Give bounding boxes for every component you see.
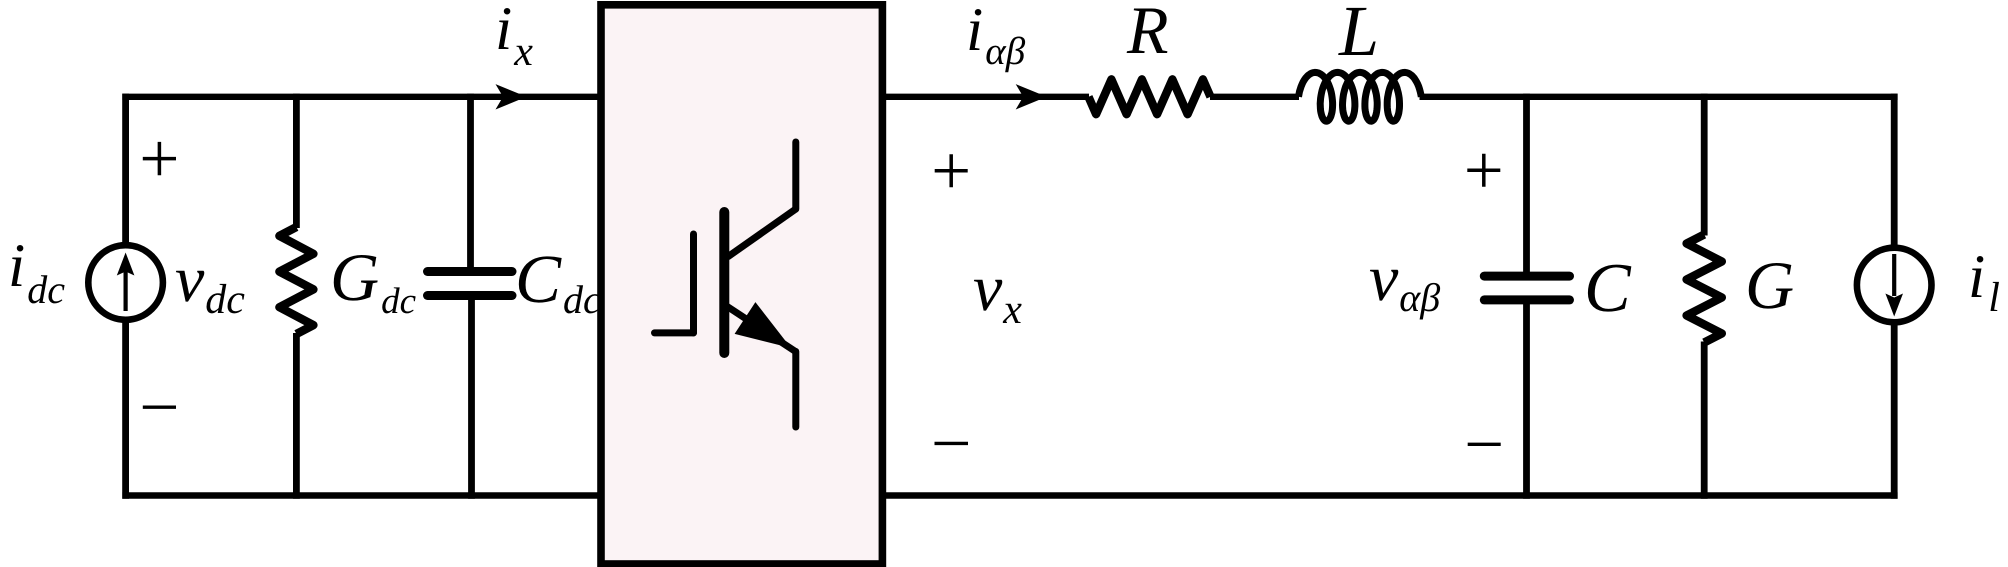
inductor L coil: [1299, 72, 1422, 121]
current source i_l circle: [1857, 248, 1932, 323]
current source I_dc arrow head: [117, 253, 135, 276]
IGBT emitter diagonal: [727, 306, 796, 352]
svg-text:G: G: [1745, 247, 1794, 323]
resistor G_dc zigzag: [279, 227, 313, 334]
minus sign v_ab: [1468, 443, 1501, 446]
resistor G top lead: [1701, 94, 1708, 236]
wire bottom rail left segment: [122, 492, 601, 498]
wire right vertical upper: [1891, 94, 1898, 246]
plus sign v_dc: [143, 142, 176, 175]
resistor G zigzag: [1687, 235, 1722, 343]
wire top rail right segment to resistor R: [882, 94, 1089, 100]
svg-text:idc: idc: [8, 232, 65, 312]
arrow i_x on top wire: [496, 84, 527, 109]
current source I_dc circle: [88, 245, 163, 320]
resistor G_dc top lead: [293, 94, 300, 228]
IGBT gate vertical bar: [690, 234, 697, 333]
arrow i_ab on top wire: [1016, 84, 1047, 109]
wire left vertical upper: [122, 94, 129, 244]
capacitor C top lead: [1523, 94, 1530, 277]
wire top rail left segment: [122, 94, 601, 100]
svg-text:ix: ix: [495, 0, 533, 75]
resistor R zigzag: [1089, 79, 1211, 114]
svg-text:R: R: [1126, 0, 1169, 68]
capacitor C bottom plate: [1484, 295, 1569, 304]
minus sign v_dc: [143, 406, 176, 409]
plus sign v_x: [935, 154, 968, 187]
wire left vertical lower: [122, 322, 129, 499]
capacitor C_dc top lead: [467, 94, 474, 272]
svg-text:il: il: [1968, 243, 2000, 321]
capacitor C top plate: [1484, 272, 1569, 281]
wire bottom rail right segment: [882, 492, 1898, 498]
capacitor C bottom lead: [1523, 300, 1530, 499]
svg-text:Cdc: Cdc: [515, 241, 601, 322]
current source i_l arrow head: [1885, 294, 1903, 317]
svg-text:vx: vx: [973, 252, 1022, 333]
wire from inductor L to right end: [1420, 94, 1898, 100]
svg-text:C: C: [1584, 250, 1632, 327]
svg-text:iαβ: iαβ: [966, 0, 1026, 73]
capacitor C_dc top plate: [428, 267, 513, 276]
minus sign v_x: [935, 442, 969, 445]
plus sign v_ab: [1467, 154, 1500, 187]
wire between resistor R and inductor L: [1210, 94, 1299, 100]
svg-text:vαβ: vαβ: [1369, 242, 1440, 320]
svg-text:L: L: [1338, 0, 1379, 71]
IGBT emitter vertical: [792, 352, 799, 428]
IGBT main bar: [719, 212, 729, 353]
IGBT emitter arrow head: [735, 302, 791, 348]
resistor G_dc bottom lead: [293, 333, 300, 499]
current source I_dc arrow shaft: [123, 271, 127, 311]
svg-text:Gdc: Gdc: [330, 239, 417, 322]
capacitor C_dc bottom plate: [428, 291, 513, 300]
current source i_l arrow shaft: [1892, 254, 1896, 296]
IGBT collector vertical: [792, 142, 799, 209]
IGBT gate horizontal lead: [655, 329, 694, 336]
IGBT collector diagonal: [728, 209, 796, 257]
wire right vertical lower: [1891, 324, 1898, 499]
svg-text:vdc: vdc: [175, 243, 245, 323]
capacitor C_dc bottom lead: [468, 296, 475, 499]
resistor G bottom lead: [1701, 342, 1708, 499]
converter box: [601, 5, 882, 564]
